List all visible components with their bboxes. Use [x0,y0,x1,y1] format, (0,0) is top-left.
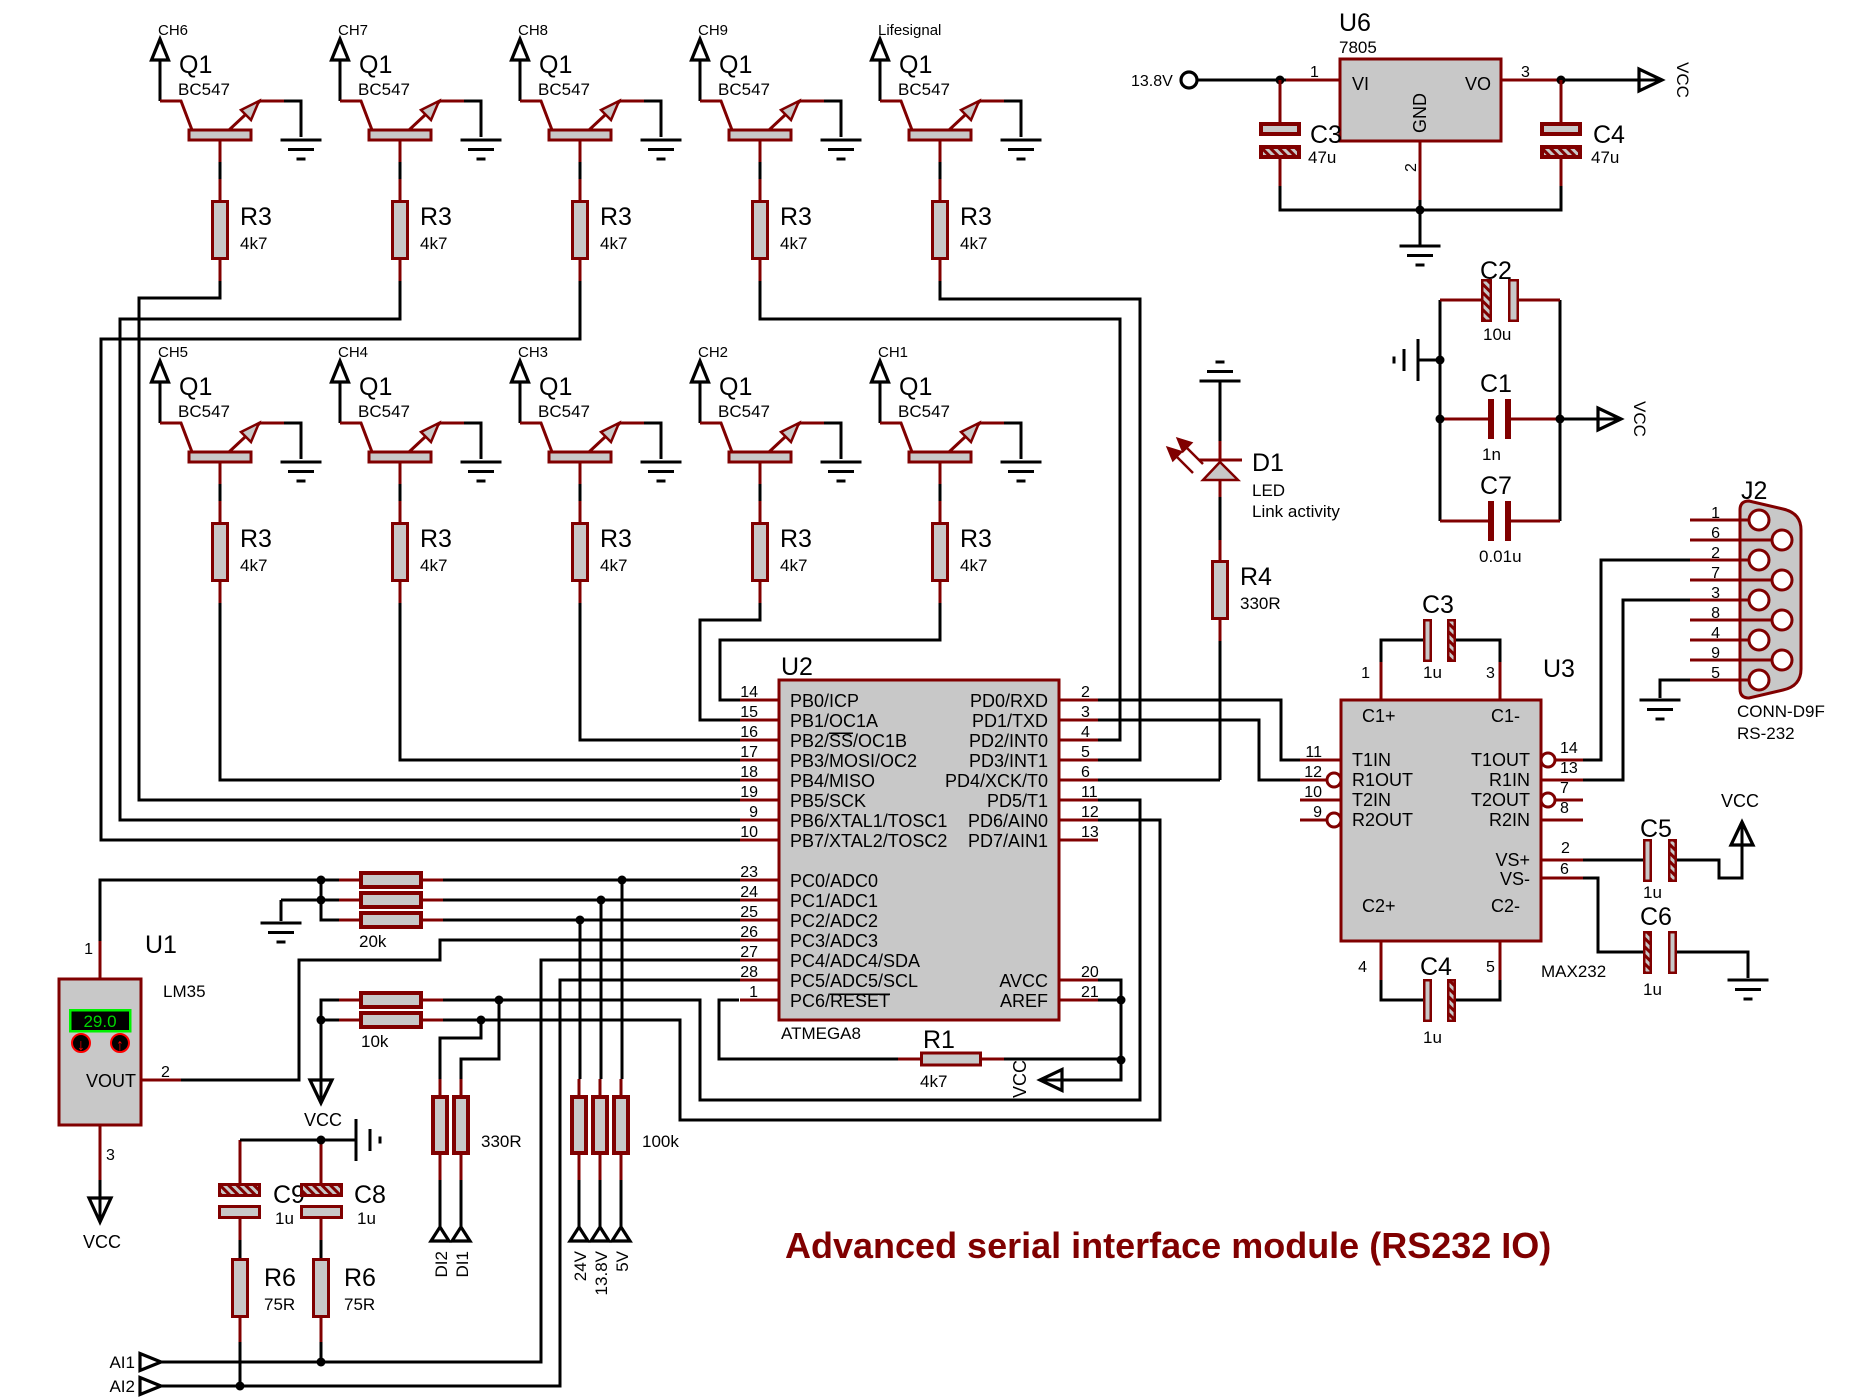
svg-text:11: 11 [1305,744,1322,761]
pin circle J2-3 [1749,590,1769,610]
svg-text:LM35: LM35 [163,982,206,1001]
svg-text:2: 2 [1081,684,1090,701]
svg-text:U1: U1 [145,931,177,959]
resistor R1 [922,1053,981,1065]
svg-text:10k: 10k [361,1032,389,1051]
svg-text:25: 25 [740,904,758,921]
wire CH8 emitter to ground [644,101,661,137]
wire 20k row1 left [321,879,339,882]
svg-text:PD1/TXD: PD1/TXD [972,711,1048,731]
svg-text:PD7/AIN1: PD7/AIN1 [968,831,1048,851]
svg-text:4k7: 4k7 [600,556,627,575]
IC U3 MAX232 body [1341,700,1541,941]
resistor 330R-a top pin [439,1079,442,1095]
svg-text:BC547: BC547 [898,402,950,421]
svg-text:24V: 24V [571,1250,590,1281]
capacitor C6 (1u) plates [1644,932,1651,973]
svg-text:C1+: C1+ [1362,706,1396,726]
svg-text:2: 2 [1561,840,1570,857]
resistor 100k-3 bottom pin [620,1155,623,1180]
terminal CH5 arrow [152,361,169,382]
svg-text:BC547: BC547 [538,80,590,99]
capacitor C9 (1u) plates [239,1140,242,1183]
svg-text:18: 18 [740,764,758,781]
svg-text:3: 3 [1521,64,1530,81]
svg-text:C4: C4 [1420,953,1452,981]
resistor R3 (CH5) top pin [219,501,222,522]
wire net CH2 to U2 pin 15 [700,603,760,720]
pin 1 U3 C1+ [1380,662,1383,700]
svg-text:PC0/ADC0: PC0/ADC0 [790,871,878,891]
pin 9 J2 [1690,659,1772,662]
resistor 330R-b bottom pin [460,1155,463,1180]
svg-text:CH2: CH2 [698,344,728,361]
wire ground to D1 cathode [1219,381,1222,441]
wire CH9 base [759,162,762,179]
wire D1 to R4 [1219,497,1222,540]
wire CH7 collector [339,61,342,101]
wire 20k row2 left [321,899,339,902]
svg-text:VO: VO [1465,74,1491,94]
svg-text:PB0/ICP: PB0/ICP [790,691,859,711]
pin 5 J2 [1690,679,1749,682]
pin 8 U3 R2IN [1541,819,1583,822]
svg-text:R3: R3 [960,525,992,553]
resistor 20k row1 right pin [422,879,443,882]
pin 9 U2 PB6/XTAL1/TOSC1 [740,819,779,822]
pin 11 U3 T1IN [1300,759,1341,762]
svg-text:10: 10 [1304,784,1322,801]
terminal AI1 arrow [140,1354,161,1371]
junction 100k-24V [576,916,585,925]
svg-text:R3: R3 [420,525,452,553]
svg-text:Q1: Q1 [359,373,392,401]
wire net VOUT to U2 PC3/ADC3 [181,940,740,1080]
wire to ground (C8/C9) [321,1139,355,1142]
svg-text:0.01u: 0.01u [1479,547,1522,566]
svg-text:11: 11 [1081,784,1098,801]
pin names U3 [1352,706,1530,916]
wire U3 T1OUT to J2 pin2 [1583,560,1690,760]
wire CH6 collector [159,61,162,101]
pin 20 U2 AVCC [1059,979,1098,982]
resistor R3 (CH1) bottom pin [939,582,942,603]
wire Lifesignal base [939,162,942,179]
svg-text:Q1: Q1 [179,373,212,401]
ground (U6) [1400,246,1441,265]
svg-text:CH6: CH6 [158,22,188,39]
junction 20k row1 [317,876,326,885]
pin 1 J2 [1690,519,1749,522]
terminal AI2 arrow [140,1378,161,1395]
svg-text:PC1/ADC1: PC1/ADC1 [790,891,878,911]
svg-text:VCC: VCC [304,1110,342,1130]
resistor 100k-1 top pin [578,1079,581,1095]
svg-text:VS-: VS- [1500,869,1530,889]
terminal 5V arrow [612,1227,630,1241]
svg-text:PB4/MISO: PB4/MISO [790,771,875,791]
terminal DI2 arrow [431,1227,449,1241]
power VCC arrow (C5) [1731,822,1753,845]
resistor 100k-3 top pin [620,1079,623,1095]
svg-text:U6: U6 [1339,9,1371,37]
wire C9 to C8 top [240,1139,321,1142]
wire CH8 collector [519,61,522,101]
svg-text:BC547: BC547 [178,402,230,421]
svg-text:R1: R1 [923,1026,955,1054]
svg-text:20: 20 [1081,964,1099,981]
svg-text:J2: J2 [1741,477,1767,505]
ground (C6) [1728,980,1769,999]
svg-text:PC5/ADC5/SCL: PC5/ADC5/SCL [790,971,918,991]
capacitor C8 (1u) plates [320,1140,323,1183]
wire to VCC (C1) [1560,418,1599,421]
svg-text:C5: C5 [1640,815,1672,843]
svg-text:VCC: VCC [1630,401,1649,437]
resistor R3 (CH1) [933,524,948,581]
wire CH1 emitter to ground [1004,423,1021,459]
pin 3 U1 [99,1125,102,1180]
pin 3 J2 [1690,599,1749,602]
svg-text:4k7: 4k7 [960,234,987,253]
wire J2 pin5 to ground [1660,680,1690,698]
svg-text:10: 10 [740,824,758,841]
svg-text:4k7: 4k7 [780,556,807,575]
wire net CH8 to U2 pin 10 [101,281,740,840]
wire CH1 collector [879,383,882,423]
svg-text:VCC: VCC [1673,62,1692,98]
resistor R3 (CH2) [753,524,768,581]
svg-text:21: 21 [1081,984,1099,1001]
resistor 330R-a bottom pin [439,1155,442,1180]
svg-text:PC3/ADC3: PC3/ADC3 [790,931,878,951]
svg-text:1: 1 [84,941,93,958]
terminal Lifesignal arrow [872,39,889,60]
ground (J2 pin5) [1640,700,1681,719]
pin 12 U3 R1OUT with bubble [1300,779,1327,782]
svg-text:R4: R4 [1240,563,1272,591]
terminal 13.8V input circle [1181,72,1197,88]
svg-text:1: 1 [1310,64,1319,81]
capacitor C3 (1u, U3) plates [1424,620,1431,661]
resistor 20k row3 left pin [339,919,360,922]
ground (CH2 emitter) [821,462,862,481]
wire 13.8V to U6 VI [1198,79,1286,82]
ground (CH6 emitter) [281,140,322,159]
svg-text:CH7: CH7 [338,22,368,39]
pin 10 U3 T2IN [1300,799,1341,802]
pin circle J2-5 [1749,670,1769,690]
svg-text:3: 3 [1081,704,1090,721]
pin 13 U2 PD7/AIN1 [1059,839,1098,842]
transistor Q1 (CH8) [520,51,644,162]
pin 1 U1 [99,941,102,979]
resistor 100k-2 bottom pin [599,1155,602,1180]
wire U3 R1IN to J2 pin3 [1583,600,1690,780]
pin 26 U2 PC3/ADC3 [740,939,779,942]
svg-text:R1OUT: R1OUT [1352,770,1413,790]
ground (C8/C9, rotated) [356,1119,380,1161]
pin 6 U2 PD4/XCK/T0 [1059,779,1098,782]
pin 23 U2 PC0/ADC0 [740,879,779,882]
pin circle J2-7 [1772,570,1792,590]
wire AREF to VCC [1098,1000,1121,1060]
svg-text:R2OUT: R2OUT [1352,810,1413,830]
wire C5 to VCC [1677,843,1742,878]
svg-text:MAX232: MAX232 [1541,962,1606,981]
svg-text:AI2: AI2 [109,1377,135,1396]
capacitor C2 (10u) [1440,280,1560,321]
wire R1 to VCC junction [1004,1058,1121,1061]
capacitor C4 (1u, U3) plates [1424,980,1431,1021]
svg-text:26: 26 [740,924,758,941]
wire left rail C2/C1/C7 [1439,300,1442,521]
wire VS+ to C5 [1583,859,1643,862]
transistor Q1 (CH3) [520,373,644,484]
svg-text:CH8: CH8 [518,22,548,39]
svg-text:C3: C3 [1310,121,1342,149]
pin 10 U2 PB7/XTAL2/TOSC2 [740,839,779,842]
LM35 display 29.0 [70,1010,130,1031]
svg-text:PD4/XCK/T0: PD4/XCK/T0 [945,771,1048,791]
ground (CH7 emitter) [461,140,502,159]
wire net U2 PD0/RXD to U3 T1IN [1098,700,1300,760]
svg-text:Q1: Q1 [539,373,572,401]
svg-text:Lifesignal: Lifesignal [878,22,941,39]
svg-text:R3: R3 [960,203,992,231]
pin 19 U2 PB5/SCK [740,799,779,802]
svg-text:1: 1 [749,984,758,1001]
resistor 100k-2 top pin [599,1079,602,1095]
wire net U2 PD1/TXD to U3 R1OUT [1098,720,1300,780]
resistor 20k row3 [361,913,421,927]
junction 100k-13.8V [597,896,606,905]
resistor R1 right pin [982,1058,1004,1061]
wire 100k-2 to 13.8V [599,1180,602,1228]
wire U1 pin3 to VCC [99,1180,102,1199]
svg-text:DI2: DI2 [432,1251,451,1277]
svg-text:27: 27 [740,944,758,961]
svg-text:5: 5 [1711,665,1720,682]
svg-text:4: 4 [1081,724,1090,741]
connector J2 body [1740,501,1801,698]
svg-text:T1OUT: T1OUT [1471,750,1530,770]
svg-text:20k: 20k [359,932,387,951]
wire 100k-3 to 5V [620,1180,623,1228]
resistor 10k row2 [361,1013,421,1027]
ground (Lifesignal emitter) [1001,140,1042,159]
svg-text:C2-: C2- [1491,896,1520,916]
pin 2 U3 VS+ [1541,859,1583,862]
svg-text:R1IN: R1IN [1489,770,1530,790]
resistor R3 (CH7) top pin [399,179,402,200]
resistor R3 (CH5) [213,524,228,581]
pin 2 U6 GND [1419,141,1422,200]
transistor Q1 (CH5) [160,373,284,484]
svg-text:T2IN: T2IN [1352,790,1391,810]
svg-text:PB6/XTAL1/TOSC1: PB6/XTAL1/TOSC1 [790,811,947,831]
svg-text:9: 9 [749,804,758,821]
resistor R3 (CH5) bottom pin [219,582,222,603]
wire CH6 base [219,162,222,179]
LM35 buttons [72,1034,129,1054]
wire CH4 base [399,484,402,501]
svg-text:R3: R3 [600,203,632,231]
power VCC arrow (C1) [1598,408,1621,430]
ground (CH3 emitter) [641,462,682,481]
wire C3 to C1- [1456,640,1500,662]
wire C6 to ground [1677,952,1748,978]
transistor Q1 (CH7) [340,51,464,162]
svg-text:6: 6 [1081,764,1090,781]
pin 28 U2 PC5/ADC5/SCL [740,979,779,982]
capacitor C3 (47u) plates [1279,80,1282,122]
wire C8 to R6-b [320,1240,323,1258]
junction U6 ground rail [1416,206,1425,215]
svg-text:17: 17 [740,744,758,761]
pin circle J2-4 [1749,630,1769,650]
wire net CH4 to U2 pin 17 [400,603,740,760]
pin 14 U3 T1OUT with bubble [1541,753,1555,767]
resistor R3 (CH3) [573,524,588,581]
pin 17 U2 PB3/MOSI/OC2 [740,759,779,762]
svg-text:47u: 47u [1591,148,1619,167]
wire CH4 emitter to ground [464,423,481,459]
resistor R3 (Lifesignal) bottom pin [939,260,942,281]
pin 4 J2 [1690,639,1749,642]
svg-text:VCC: VCC [1721,791,1759,811]
wire 10k left rail to VCC [321,1000,339,1080]
resistor R3 (CH8) top pin [579,179,582,200]
svg-text:PD2/INT0: PD2/INT0 [969,731,1048,751]
pin 2 J2 [1690,559,1749,562]
svg-text:VCC: VCC [83,1232,121,1252]
svg-text:4k7: 4k7 [600,234,627,253]
svg-text:9: 9 [1313,804,1322,821]
junction DI1 pullup [495,996,504,1005]
wire Lifesignal emitter to ground [1004,101,1021,137]
svg-text:R3: R3 [780,203,812,231]
wire net U2 PD4 to R4 [1098,779,1220,782]
junction DI2 pullup [477,1016,486,1025]
pin 6 J2 [1690,539,1772,542]
transistor Q1 (CH2) [700,373,824,484]
pin 24 U2 PC1/ADC1 [740,899,779,902]
svg-text:5: 5 [1081,744,1090,761]
junction 100k-5V [618,876,627,885]
wire 330R-a to DI2 [439,1180,442,1228]
resistor 100k-2 [593,1097,607,1153]
wire U6 GND down [1419,200,1422,245]
svg-text:12: 12 [1081,804,1099,821]
svg-text:13.8V: 13.8V [592,1250,611,1295]
transistor Q1 (CH6) [160,51,284,162]
wire CH4 collector [339,383,342,423]
svg-text:AI1: AI1 [109,1353,135,1372]
wire net U2 PC4 to AI1 [161,960,740,1362]
wire C2+ to C4 [1381,980,1423,1000]
wire ground stem (20k) [280,900,283,921]
svg-text:13.8V: 13.8V [1131,73,1173,90]
wire CH2 emitter to ground [824,423,841,459]
wire ground stub (C2 group) [1419,359,1440,362]
resistor R4 bottom pin [1219,620,1222,641]
resistor R3 (CH6) [213,202,228,259]
svg-text:75R: 75R [344,1295,375,1314]
svg-text:330R: 330R [1240,594,1281,613]
resistor R6-a bottom pin [239,1318,242,1342]
junction R6-b/AI1 [317,1358,326,1367]
svg-text:PD6/AIN0: PD6/AIN0 [968,811,1048,831]
svg-text:PB5/SCK: PB5/SCK [790,791,866,811]
svg-text:R3: R3 [240,525,272,553]
svg-text:47u: 47u [1308,148,1336,167]
svg-text:BC547: BC547 [898,80,950,99]
svg-text:4k7: 4k7 [920,1072,947,1091]
capacitor C1 (1n) [1440,399,1560,439]
pin 13 U3 R1IN [1541,779,1583,782]
svg-text:BC547: BC547 [718,80,770,99]
svg-text:PD3/INT1: PD3/INT1 [969,751,1048,771]
svg-text:4k7: 4k7 [420,556,447,575]
ground (CH8 emitter) [641,140,682,159]
resistor 10k row1 left pin [339,999,360,1002]
svg-text:1u: 1u [1643,883,1662,902]
svg-text:U3: U3 [1543,655,1575,683]
svg-text:7: 7 [1560,780,1569,797]
svg-text:AVCC: AVCC [999,971,1048,991]
wire VO to VCC [1560,79,1639,82]
wire net CH7 to U2 pin 9 [120,281,740,820]
wire CH5 emitter to ground [284,423,301,459]
svg-text:7: 7 [1711,565,1720,582]
capacitor C7 (0.01u) [1440,501,1560,541]
svg-text:VCC: VCC [1010,1060,1030,1098]
svg-text:8: 8 [1560,800,1569,817]
svg-text:PB3/MOSI/OC2: PB3/MOSI/OC2 [790,751,917,771]
transistor Q1 (CH9) [700,51,824,162]
svg-text:BC547: BC547 [358,402,410,421]
power VCC arrow (10k) [310,1080,332,1103]
overline RESET on U2 pin1 [830,993,890,995]
junction C4/VO [1557,76,1566,85]
svg-text:12: 12 [1304,764,1322,781]
pin 27 U2 PC4/ADC4/SDA [740,959,779,962]
wire C4 to ground rail [1420,186,1561,210]
wire CH9 collector [699,61,702,101]
svg-text:CH1: CH1 [878,344,908,361]
svg-text:4k7: 4k7 [960,556,987,575]
overline SS on U2 pin16 [829,732,853,734]
resistor R3 (CH7) bottom pin [399,260,402,281]
svg-text:PD0/RXD: PD0/RXD [970,691,1048,711]
wire CH2 base [759,484,762,501]
resistor 330R-b [454,1097,468,1153]
svg-text:Q1: Q1 [359,51,392,79]
resistor R3 (CH9) bottom pin [759,260,762,281]
resistor 20k row3 right pin [422,919,443,922]
svg-text:VI: VI [1352,74,1369,94]
svg-text:4k7: 4k7 [240,556,267,575]
junction R6-a/AI2 [236,1382,245,1391]
resistor R3 (CH6) top pin [219,179,222,200]
resistor R3 (CH4) [393,524,408,581]
svg-text:LED: LED [1252,481,1285,500]
resistor 20k row2 right pin [422,899,443,902]
transistor Q1 (CH4) [340,373,464,484]
terminal CH4 arrow [332,361,349,382]
pin 2 U1 VOUT [141,1079,181,1082]
